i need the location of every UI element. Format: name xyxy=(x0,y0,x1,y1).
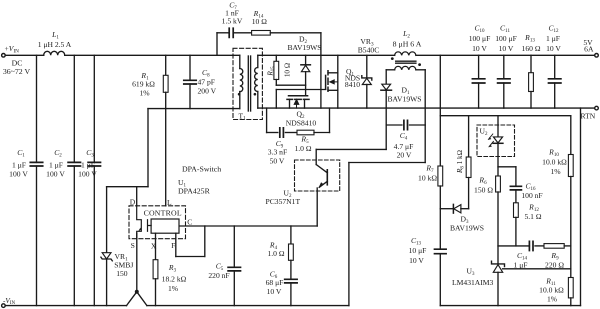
wire F pin xyxy=(175,233,177,256)
svg-text:S: S xyxy=(131,241,135,250)
wire D pin xyxy=(136,187,138,206)
T1 core xyxy=(247,56,249,111)
zener VR1 xyxy=(106,187,108,253)
U1 mosfet xyxy=(137,206,142,239)
wire snubber left xyxy=(216,33,218,56)
svg-text:150 Ω: 150 Ω xyxy=(474,186,493,195)
capacitor C10 xyxy=(478,55,480,79)
resistor R1 xyxy=(165,55,167,75)
wire 5V sense drop xyxy=(439,55,441,166)
resistor R12 xyxy=(514,203,519,218)
capacitor C5 xyxy=(233,226,235,267)
resistor R3 xyxy=(153,260,158,279)
wire feedback ground bus xyxy=(440,305,580,307)
svg-text:10 V: 10 V xyxy=(267,287,282,296)
svg-text:D: D xyxy=(130,198,136,207)
svg-text:BAV19WS: BAV19WS xyxy=(450,224,484,233)
resistor R13 xyxy=(530,55,532,72)
svg-text:1%: 1% xyxy=(139,89,150,98)
svg-text:1.0 Ω: 1.0 Ω xyxy=(267,249,284,258)
resistor R7 xyxy=(438,166,443,186)
wire top rail primary xyxy=(65,54,240,56)
resistor R15 xyxy=(275,55,277,61)
wire comp A xyxy=(498,245,529,247)
U2 dashed box xyxy=(295,160,340,191)
L2 dot bias xyxy=(418,63,421,66)
resistor R11 xyxy=(568,278,573,298)
capacitor C13 xyxy=(435,249,447,254)
wire snubber right xyxy=(270,32,321,34)
wire ref B xyxy=(503,268,571,270)
T1 secondary dot xyxy=(254,93,257,96)
diode D1 xyxy=(385,70,387,84)
capacitor C7 xyxy=(229,28,233,37)
snubber C9 R5 loop xyxy=(266,108,268,132)
transistor Q2 xyxy=(289,95,308,97)
svg-text:L: L xyxy=(167,198,172,207)
wire bottom rail left xyxy=(5,305,126,307)
U2 LED dashed box xyxy=(477,125,515,157)
terminal +VIN xyxy=(2,54,6,58)
capacitor C11 xyxy=(503,55,505,79)
resistor R10 xyxy=(568,155,573,177)
svg-text:10 V: 10 V xyxy=(546,44,561,53)
capacitor C14 xyxy=(529,241,533,250)
svg-text:PC357N1T: PC357N1T xyxy=(266,197,301,206)
wire S pin xyxy=(136,233,138,292)
resistor R9 xyxy=(544,244,564,249)
capacitor C3 xyxy=(93,55,95,162)
wire bias return xyxy=(424,70,426,163)
resistor R8 xyxy=(468,116,470,157)
svg-text:200 V: 200 V xyxy=(198,87,217,96)
L2 core xyxy=(396,60,416,62)
svg-text:LM431AIM3: LM431AIM3 xyxy=(452,278,494,287)
svg-text:10 Ω: 10 Ω xyxy=(252,17,267,26)
svg-text:BAV19WS: BAV19WS xyxy=(287,43,321,52)
T1 primary dot xyxy=(238,93,241,96)
wire X pin xyxy=(155,233,157,260)
capacitor C12 xyxy=(554,55,556,79)
svg-text:6A: 6A xyxy=(584,45,594,54)
svg-text:C: C xyxy=(187,217,192,226)
wire bias to opto collector xyxy=(316,148,386,150)
svg-text:1%: 1% xyxy=(168,284,179,293)
svg-text:8 μH 6 A: 8 μH 6 A xyxy=(393,40,422,49)
svg-text:10.0 kΩ: 10.0 kΩ xyxy=(542,158,567,167)
T1 primary winding xyxy=(239,55,241,68)
junction S xyxy=(135,290,139,294)
svg-text:20 V: 20 V xyxy=(397,151,412,160)
svg-text:36~72 V: 36~72 V xyxy=(3,67,31,76)
svg-text:8410: 8410 xyxy=(345,80,360,89)
capacitor C1 xyxy=(36,55,38,162)
U1 dashed box xyxy=(129,206,186,239)
terminal RTN xyxy=(595,106,599,110)
wire snubber top xyxy=(217,32,229,34)
wire bias ground return xyxy=(349,162,425,164)
svg-text:1%: 1% xyxy=(550,167,561,176)
wire C16 branch xyxy=(498,166,516,168)
svg-text:R8 1 kΩ: R8 1 kΩ xyxy=(456,150,465,174)
inductor L1 xyxy=(44,51,65,55)
inductor L2 main xyxy=(395,52,416,55)
svg-text:10 μF: 10 μF xyxy=(409,246,427,255)
capacitor C2 xyxy=(73,55,75,162)
svg-text:100 V: 100 V xyxy=(9,170,28,179)
svg-text:1 μF: 1 μF xyxy=(81,160,95,169)
wire secondary top rail xyxy=(258,54,395,56)
L2 dot main xyxy=(391,57,394,60)
svg-text:1%: 1% xyxy=(547,295,558,304)
wire top rail left xyxy=(5,54,44,56)
wire top rail output xyxy=(416,54,595,56)
diode D3 xyxy=(452,204,454,213)
svg-text:1 μF: 1 μF xyxy=(12,160,26,169)
wire C pin xyxy=(180,225,317,227)
wire S legs xyxy=(127,292,147,306)
svg-text:1 μF: 1 μF xyxy=(546,34,560,43)
terminal 5V xyxy=(595,54,599,58)
svg-text:1 μH 2.5 A: 1 μH 2.5 A xyxy=(38,40,72,49)
opto U2 phototransistor xyxy=(315,149,317,164)
svg-text:3.3 nF: 3.3 nF xyxy=(268,148,287,157)
svg-text:68 μF: 68 μF xyxy=(266,278,284,287)
svg-text:1 μF: 1 μF xyxy=(49,160,63,169)
svg-text:DPA-Switch: DPA-Switch xyxy=(182,165,221,174)
svg-text:47 pF: 47 pF xyxy=(198,77,216,86)
T1 secondary winding xyxy=(257,55,259,67)
resistor R4 xyxy=(290,226,292,244)
svg-text:50 V: 50 V xyxy=(270,157,285,166)
wire RTN to bus xyxy=(580,108,582,306)
svg-text:DPA425R: DPA425R xyxy=(178,187,211,196)
svg-text:NDS8410: NDS8410 xyxy=(286,118,317,127)
capacitor C4 xyxy=(386,124,402,126)
svg-text:10 V: 10 V xyxy=(409,256,424,265)
svg-text:619 kΩ: 619 kΩ xyxy=(132,80,155,89)
capacitor C6 xyxy=(285,279,297,283)
svg-text:10.0 kΩ: 10.0 kΩ xyxy=(539,286,564,295)
svg-text:F: F xyxy=(171,241,175,250)
capacitor C16 xyxy=(515,167,517,187)
wire primary drain xyxy=(239,95,241,109)
diode D2 xyxy=(305,55,307,65)
svg-text:220 nF: 220 nF xyxy=(208,271,229,280)
inductor L2 bias winding xyxy=(386,69,394,71)
svg-text:10 Ω: 10 Ω xyxy=(284,63,292,77)
svg-text:10 V: 10 V xyxy=(499,44,514,53)
wire bottom rail right xyxy=(147,305,349,307)
svg-text:BAV19WS: BAV19WS xyxy=(387,95,421,104)
svg-text:B540C: B540C xyxy=(358,45,380,54)
transistor Q1 xyxy=(325,75,327,89)
svg-text:100 V: 100 V xyxy=(78,170,97,179)
resistor R6 xyxy=(496,176,501,192)
shunt reg U3 LM431 xyxy=(492,261,505,266)
wire D3 node xyxy=(440,208,453,210)
svg-text:1.5 kV: 1.5 kV xyxy=(222,17,243,26)
svg-text:10 V: 10 V xyxy=(472,44,487,53)
wire secondary lower rail xyxy=(258,107,595,109)
U1 control box xyxy=(151,219,179,233)
resistor R14 xyxy=(252,31,271,36)
svg-text:100 μF: 100 μF xyxy=(495,34,517,43)
svg-text:RTN: RTN xyxy=(581,112,596,121)
wire W2 gate Q1 xyxy=(276,89,325,91)
diode VR3 B540C xyxy=(366,55,368,78)
svg-text:100 V: 100 V xyxy=(46,170,65,179)
resistor R5 xyxy=(297,130,314,135)
capacitor C9 xyxy=(280,128,284,137)
svg-text:10 kΩ: 10 kΩ xyxy=(418,174,437,183)
wire sense xyxy=(440,115,571,117)
svg-text:1.0 Ω: 1.0 Ω xyxy=(294,144,311,153)
capacitor C8 xyxy=(189,55,191,80)
svg-text:100 nF: 100 nF xyxy=(521,191,542,200)
opto LED xyxy=(497,116,499,137)
wire W1 gate drive xyxy=(276,84,305,86)
svg-text:160 Ω: 160 Ω xyxy=(522,44,541,53)
wire divider xyxy=(570,116,572,155)
svg-text:150: 150 xyxy=(116,269,128,278)
svg-text:18.2 kΩ: 18.2 kΩ xyxy=(162,275,187,284)
svg-text:100 μF: 100 μF xyxy=(469,34,491,43)
svg-text:CONTROL: CONTROL xyxy=(144,209,182,218)
svg-text:5.1 Ω: 5.1 Ω xyxy=(524,212,541,221)
terminal -VIN xyxy=(2,304,6,308)
transformer T1 box xyxy=(233,48,262,119)
